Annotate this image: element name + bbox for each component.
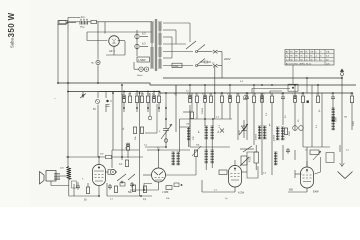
coil L8 winding: [205, 150, 208, 163]
title Saba 350 W: [7, 12, 16, 48]
jack circle: [110, 169, 115, 174]
assorted tiny value labels: [60, 81, 350, 201]
svg-text:EC: EC: [290, 52, 293, 54]
svg-text:5000: 5000: [336, 116, 338, 122]
svg-text:2M: 2M: [128, 94, 131, 96]
trimmer circle: [95, 99, 99, 103]
coil L5 winding: [332, 117, 335, 130]
extra bottom-mid marks: [120, 183, 179, 191]
trimmer pot top right: [244, 96, 248, 100]
X contacts mains: [213, 50, 222, 78]
phono jack J1: [96, 60, 100, 64]
speaker magnet hatch: [54, 174, 64, 180]
svg-text:AZ11 ECH11 UBF11 EL12: AZ11 ECH11 UBF11 EL12: [286, 62, 312, 65]
ecap on wire: [126, 143, 129, 150]
tube V3 UBF11 IF-detector: [229, 166, 242, 188]
bus heater y91.5/93: [68, 92, 352, 94]
svg-text:L: L: [198, 129, 200, 134]
svg-text:Saba: Saba: [10, 38, 15, 48]
variable cap with arrow: [161, 104, 172, 147]
small parts under ECH: [130, 182, 134, 188]
primary winding hatch: [150, 22, 154, 68]
wire y147 mid: [145, 146, 166, 148]
bus anode y78: [163, 77, 342, 79]
resistor R19: [143, 186, 146, 193]
coil L4 winding: [332, 108, 335, 121]
resistor R17: [114, 186, 117, 193]
wire antenna down: [98, 22, 105, 60]
junction dots row: [123, 107, 125, 109]
resistor R18: [132, 185, 135, 192]
svg-text:E4W: E4W: [313, 190, 319, 194]
tube V2 ECH11 mixer-oscillator: [152, 168, 166, 182]
svg-text:6,3: 6,3: [142, 32, 146, 36]
capacitor C5 (electrolytic): [293, 95, 296, 102]
fuse box 0,1: [88, 20, 152, 23]
step wires right: [252, 89, 290, 94]
resistor R12: [301, 96, 304, 103]
bottom small parts left: [76, 184, 80, 190]
svg-text:3000: 3000: [289, 130, 291, 136]
IF transformer 1 windings: [205, 126, 208, 139]
coil L1 winding: [263, 126, 266, 139]
resistor right of tube2: [190, 112, 193, 119]
resistor left of IF: [194, 150, 197, 157]
earth terminal right: [340, 69, 344, 79]
wires around tube: [87, 32, 152, 83]
svg-text:UB: UB: [310, 52, 314, 54]
pilot lamps: [139, 67, 143, 71]
arrow box right of output tube: [106, 170, 117, 175]
bottom small cluster left of ECH: [108, 184, 112, 190]
ground box left: [58, 21, 66, 25]
fuse: [172, 63, 182, 67]
svg-text:350 W: 350 W: [7, 12, 16, 37]
field coil zigzag: [67, 167, 71, 180]
coils right: [258, 126, 261, 139]
osc coil right of ECH: [172, 152, 175, 165]
cluster right of EL tube: [313, 151, 334, 174]
terminal box with dot: [288, 84, 298, 91]
box 0,1uF: [137, 57, 150, 62]
indicator lamps: [135, 34, 139, 40]
capacitor Ca1: [245, 95, 249, 101]
svg-text:L: L: [218, 129, 220, 134]
svg-text:800: 800: [289, 189, 294, 192]
svg-text:mA: mA: [326, 51, 330, 54]
capacitor Ca3: [331, 95, 335, 101]
svg-text:2M: 2M: [344, 117, 347, 119]
svg-text:4725: 4725: [249, 156, 252, 162]
svg-text:2000: 2000: [353, 120, 355, 126]
svg-text:220V: 220V: [224, 57, 231, 61]
coil L2 winding: [276, 127, 279, 140]
right verticals: [262, 78, 352, 167]
heavy segment on heater bus: [99, 91, 160, 93]
wire antenna top rail: [66, 22, 76, 24]
small box right of coil: [72, 181, 77, 188]
coil L9 winding: [211, 150, 214, 163]
resistor R4: [146, 96, 149, 103]
svg-text:L: L: [319, 108, 321, 113]
speaker LS1: [40, 171, 57, 185]
svg-text:4,2W: 4,2W: [238, 191, 245, 195]
svg-text:~: ~: [54, 97, 56, 101]
transformer taps to the right: [163, 23, 193, 66]
stems from heater bus to component row: [124, 85, 352, 104]
antenna coil block: [80, 15, 88, 29]
resistor pair mid: [133, 127, 136, 134]
capacitor Ca4: [286, 148, 290, 154]
wire x68 long vertical: [67, 18, 69, 168]
diode arrow + tuning caps right of UBF: [240, 145, 259, 170]
svg-text:AZ 1: AZ 1: [109, 49, 115, 53]
resistor R15: [284, 128, 287, 135]
svg-text:1M: 1M: [186, 124, 189, 126]
rotated tiny value labels along verticals: [123, 107, 355, 140]
small circle node: [148, 116, 152, 120]
svg-text:50000: 50000: [202, 107, 204, 114]
coil L6 winding: [177, 152, 180, 165]
tube V5 EL12 output pentode: [93, 165, 106, 186]
coil left (osc): [187, 127, 190, 140]
svg-text:0,8A: 0,8A: [173, 64, 179, 68]
resistor R11: [252, 96, 255, 103]
resistor R8: [209, 96, 212, 103]
capacitor C1 (electrolytic): [152, 95, 155, 102]
svg-text:6,3: 6,3: [142, 42, 146, 46]
secondary winding hatch: [158, 22, 162, 68]
resistor R5: [157, 96, 160, 103]
resistor 0,3: [125, 160, 128, 167]
capacitor C2 (electrolytic): [203, 95, 206, 102]
box under IF: [219, 170, 227, 175]
switch arrow left: [80, 94, 86, 99]
long verticals mid: [122, 85, 176, 196]
loop box right of UBF: [247, 152, 258, 178]
indicator lamp: [135, 44, 139, 50]
svg-text:Ant: Ant: [81, 15, 85, 19]
resistor R10: [236, 96, 239, 103]
resistor R6: [140, 127, 143, 134]
wire ground box down to bus: [57, 24, 59, 83]
coil mid-right bottom: [274, 152, 277, 165]
bus HT y83/85: [58, 83, 356, 85]
cap with dot: [106, 100, 108, 102]
coil L7 winding: [211, 126, 214, 139]
ground symbol (earth): [338, 163, 353, 179]
wire y147 right: [303, 145, 340, 167]
svg-text:40000: 40000: [256, 133, 258, 140]
voltage selector switch: [186, 41, 213, 67]
resistor R16: [86, 187, 89, 194]
resistor R9: [220, 96, 223, 103]
svg-text:tür: tür: [186, 90, 189, 93]
resistor R1: [128, 96, 131, 103]
resistor R13: [316, 96, 319, 103]
svg-text:1M: 1M: [141, 94, 144, 96]
svg-text:L: L: [269, 122, 271, 127]
diode cluster right of IF: [239, 120, 248, 138]
resistor R3: [140, 96, 143, 103]
resistor R2: [135, 96, 138, 103]
resistor R14: [350, 96, 353, 103]
resistor R7: [195, 96, 198, 103]
capacitor C4 (electrolytic): [260, 95, 263, 102]
capacitor C3 (electrolytic): [228, 95, 231, 102]
svg-text:Skala: Skala: [137, 75, 143, 77]
tube V4 EBL output: [301, 167, 314, 188]
svg-text:J 38F: J 38F: [162, 190, 169, 194]
mains cap pair: [200, 61, 211, 64]
wire y150: [112, 150, 139, 168]
left terminal box: [59, 20, 68, 23]
capacitor Ca2: [281, 95, 285, 101]
voltage measurement table: [285, 50, 334, 66]
svg-text:40000: 40000: [274, 134, 276, 141]
svg-text:1,58W: 1,58W: [138, 58, 146, 62]
mains drop wire: [214, 67, 216, 119]
pot: [117, 174, 126, 183]
coil L3 winding: [281, 127, 284, 140]
tube V1 AZ11 rectifier: [109, 36, 120, 47]
